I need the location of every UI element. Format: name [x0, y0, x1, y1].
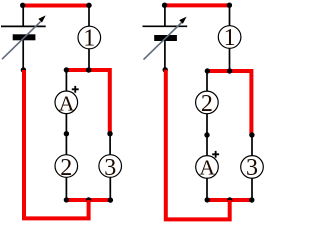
junction dot: meter 2 branch top — [205, 68, 210, 73]
meter 2 circle (right) — [196, 91, 219, 114]
wire: capacitor bottom plate down to left node — [22, 40, 24, 70]
svg-text:1: 1 — [83, 25, 95, 51]
meter 2 circle — [55, 155, 78, 178]
variable capacitor C1: arrow head — [38, 15, 45, 22]
wire: black lead from top rail to capacitor top plate — [164, 4, 166, 26]
junction dot: top rail at capacitor — [162, 2, 167, 7]
svg-text:2: 2 — [60, 155, 72, 181]
ammeter A circle — [55, 91, 78, 114]
meter 1 circle — [78, 26, 101, 49]
junction dot: top rail at meter 1 — [227, 2, 232, 7]
junction dot: mid node left branch — [64, 131, 69, 136]
junction dot: ammeter branch top — [64, 67, 69, 72]
junction dot: bottom rail left — [64, 197, 69, 202]
variable capacitor C1: adjustment arrow shaft — [2, 22, 41, 60]
wire: mid node down to ammeter — [206, 135, 208, 156]
wire: mid node to meter 2 — [65, 134, 67, 155]
wire: mid node to meter 3 — [109, 134, 111, 155]
junction dot: bottom rail right — [108, 197, 113, 202]
variable capacitor C2: bottom plate (thick) — [154, 35, 177, 41]
svg-text:3: 3 — [246, 155, 258, 181]
wire: mid node down to meter 3 — [251, 135, 253, 156]
wire: red branch rail from meter 2 node right and down to node above meter 3 — [207, 71, 251, 135]
junction dot: capacitor bottom node — [163, 67, 168, 72]
svg-text:A: A — [59, 91, 75, 115]
meter 3 circle — [99, 155, 122, 178]
ammeter polarity plus sign — [72, 86, 79, 93]
svg-text:A: A — [199, 156, 215, 180]
junction dot: meter 1 bottom node — [227, 68, 232, 73]
wire: top rail (red) from variable capacitor to meter 1 — [22, 4, 90, 8]
wire: meter 3 bottom to bottom rail — [109, 177, 111, 200]
wire: meter 1 bottom to junction row — [88, 49, 90, 70]
junction dot: mid node right branch — [107, 131, 112, 136]
junction dot: top rail at meter 1 — [86, 3, 91, 8]
wire: bottom rail (red) joining meter 2 and meter 3 branches — [66, 198, 110, 202]
wire: red return path from bottom rail to capacitor node — [24, 70, 89, 218]
variable capacitor C2: arrow head — [179, 17, 186, 24]
variable capacitor C1: top plate — [1, 25, 46, 27]
wire: bottom rail (red) joining ammeter and meter 3 branches — [207, 198, 252, 202]
junction dot: meter 1 bottom node — [86, 67, 91, 72]
junction dot: mid node left branch (right circuit) — [204, 132, 209, 137]
ammeter polarity plus sign (right) — [212, 151, 219, 158]
variable capacitor C2: top plate — [143, 25, 188, 27]
junction dot: mid node right branch (right circuit) — [249, 132, 254, 137]
wire: red branch rail from ammeter node right and down to node above meter 3 — [66, 70, 109, 134]
svg-text:3: 3 — [104, 155, 116, 181]
meter 3 circle (right) — [241, 156, 264, 179]
wire: junction row down to ammeter — [65, 70, 67, 91]
junction dot: bottom rail right (right circuit) — [249, 197, 254, 202]
wire: top rail (red) from variable capacitor to meter 1 — [164, 3, 230, 7]
svg-text:2: 2 — [201, 91, 213, 117]
ammeter A circle (right) — [196, 156, 219, 179]
wire: meter 2 bottom to mid node — [206, 114, 208, 135]
wire: from top rail down to meter 1 — [229, 5, 231, 25]
junction dot: capacitor bottom node — [21, 67, 26, 72]
variable capacitor C1: bottom plate (thick) — [13, 34, 36, 40]
meter 1 circle (right) — [218, 26, 241, 49]
wire: meter 2 bottom to bottom rail — [65, 177, 67, 200]
junction dot: top rail at capacitor — [20, 3, 25, 8]
svg-text:1: 1 — [224, 25, 236, 51]
wire: from top rail down to meter 1 — [88, 6, 90, 27]
variable capacitor C2: adjustment arrow shaft — [144, 22, 183, 60]
junction dot: bottom rail middle (return tap, right circuit) — [227, 197, 232, 202]
wire: ammeter bottom to mid node — [65, 114, 67, 134]
junction dot: bottom rail left (right circuit) — [205, 197, 210, 202]
wire: junction row down to meter 2 — [206, 71, 208, 91]
wire: meter 1 bottom to junction row — [229, 48, 231, 71]
wire: black lead from top rail to capacitor top plate — [22, 4, 24, 26]
wire: ammeter bottom to bottom rail — [206, 178, 208, 200]
junction dot: bottom rail middle (return tap) — [86, 197, 91, 202]
wire: capacitor bottom plate down to left node — [164, 41, 166, 70]
wire: red return path from bottom rail to capacitor node (right circuit) — [166, 70, 230, 220]
wire: meter 3 bottom to bottom rail — [251, 178, 253, 200]
